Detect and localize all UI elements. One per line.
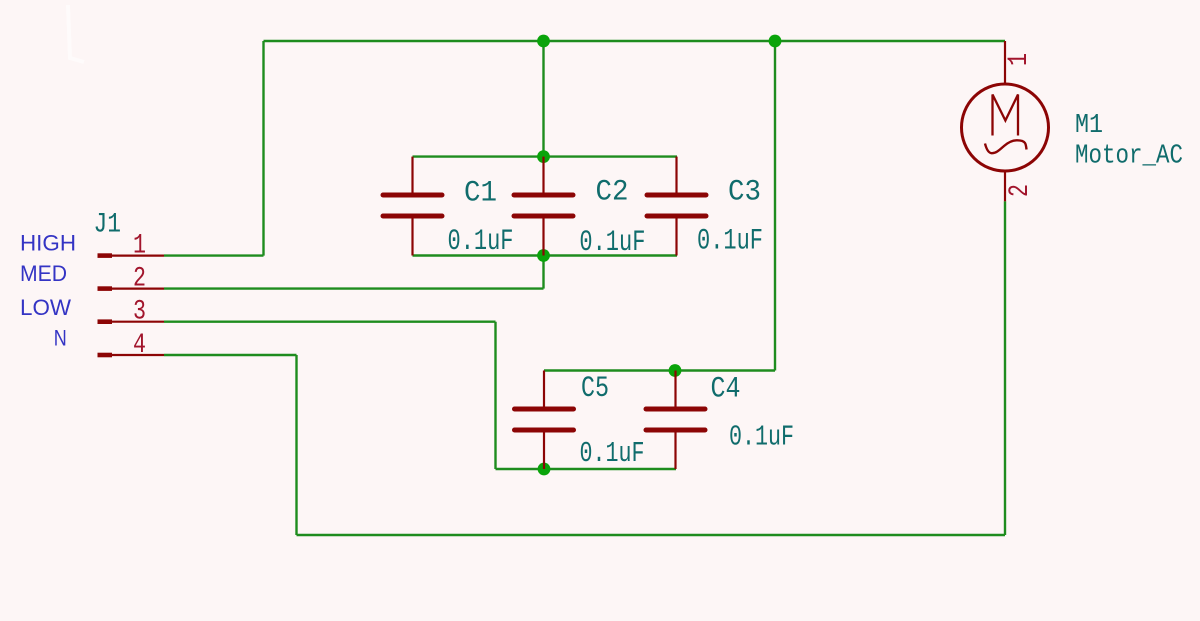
svg-text:0.1uF: 0.1uF bbox=[729, 421, 794, 454]
capacitor C5 bbox=[515, 371, 574, 470]
svg-text:C2: C2 bbox=[596, 176, 629, 210]
wire pin3 horizontal bbox=[164, 321, 496, 323]
wire pin2 horizontal bbox=[164, 287, 544, 289]
svg-text:Motor_AC: Motor_AC bbox=[1075, 142, 1183, 172]
motor M1 pin 1 bbox=[1004, 41, 1006, 85]
wire top horizontal bbox=[264, 40, 1006, 42]
motor M1 body circle bbox=[962, 84, 1049, 171]
capacitor C3 bbox=[647, 157, 706, 256]
svg-text:0.1uF: 0.1uF bbox=[697, 225, 763, 259]
wire cap box top horizontal bbox=[413, 155, 678, 157]
svg-text:1: 1 bbox=[1004, 53, 1035, 66]
wire bottom horizontal bbox=[297, 534, 1006, 536]
wire right vertical to motor pin2 bbox=[1004, 201, 1006, 535]
motor M letter bbox=[993, 95, 1019, 136]
wire pin4 horizontal bbox=[164, 354, 297, 356]
motor sine wave bbox=[985, 140, 1027, 153]
connector J1 pin 1 bbox=[98, 253, 165, 258]
svg-text:2: 2 bbox=[1005, 184, 1036, 197]
capacitor C2 bbox=[514, 157, 573, 256]
svg-text:M1: M1 bbox=[1075, 111, 1103, 141]
svg-text:C5: C5 bbox=[581, 372, 609, 406]
svg-text:3: 3 bbox=[133, 297, 146, 328]
connector J1 pin 3 bbox=[98, 319, 165, 324]
junction at top wire / x775 bbox=[769, 35, 782, 48]
svg-text:LOW: LOW bbox=[20, 295, 71, 320]
svg-text:MED: MED bbox=[20, 261, 67, 286]
wire lower box top horizontal bbox=[544, 369, 775, 371]
junction C2 top bbox=[537, 150, 550, 163]
svg-text:J1: J1 bbox=[94, 210, 122, 241]
capacitor C4 bbox=[646, 371, 705, 470]
svg-text:4: 4 bbox=[133, 330, 146, 361]
svg-text:N: N bbox=[54, 326, 67, 351]
motor M1 pin 2 bbox=[1004, 171, 1006, 202]
junction C4 top bbox=[669, 364, 682, 377]
junction C2 bottom bbox=[537, 249, 550, 262]
svg-text:2: 2 bbox=[133, 263, 146, 294]
wire cap box bottom horizontal bbox=[413, 254, 678, 256]
capacitor C1 bbox=[383, 157, 442, 256]
wire lower box bottom horizontal bbox=[496, 468, 677, 470]
svg-text:C1: C1 bbox=[464, 177, 497, 211]
wire left vertical bbox=[262, 41, 264, 256]
wire pin3 vertical down bbox=[494, 322, 496, 469]
svg-text:C4: C4 bbox=[711, 372, 741, 406]
svg-text:0.1uF: 0.1uF bbox=[579, 226, 645, 260]
wire C2 bottom to pin2 bbox=[542, 256, 544, 289]
junction C5 bottom bbox=[538, 463, 551, 476]
svg-text:1: 1 bbox=[133, 230, 146, 261]
svg-text:0.1uF: 0.1uF bbox=[580, 437, 645, 470]
faint watermark bbox=[68, 5, 84, 62]
svg-text:C3: C3 bbox=[728, 176, 761, 210]
wire pin1 to left vertical bbox=[164, 254, 264, 256]
svg-text:HIGH: HIGH bbox=[20, 230, 76, 255]
svg-text:0.1uF: 0.1uF bbox=[448, 225, 514, 259]
wire pin4 vertical down bbox=[295, 355, 297, 535]
wire top to lower box vertical x775 bbox=[774, 41, 776, 371]
wire top to C2 top bbox=[542, 41, 544, 157]
junction at top wire / C2 bbox=[537, 35, 550, 48]
connector J1 pin 2 bbox=[98, 286, 165, 291]
connector J1 pin 4 bbox=[98, 353, 165, 358]
